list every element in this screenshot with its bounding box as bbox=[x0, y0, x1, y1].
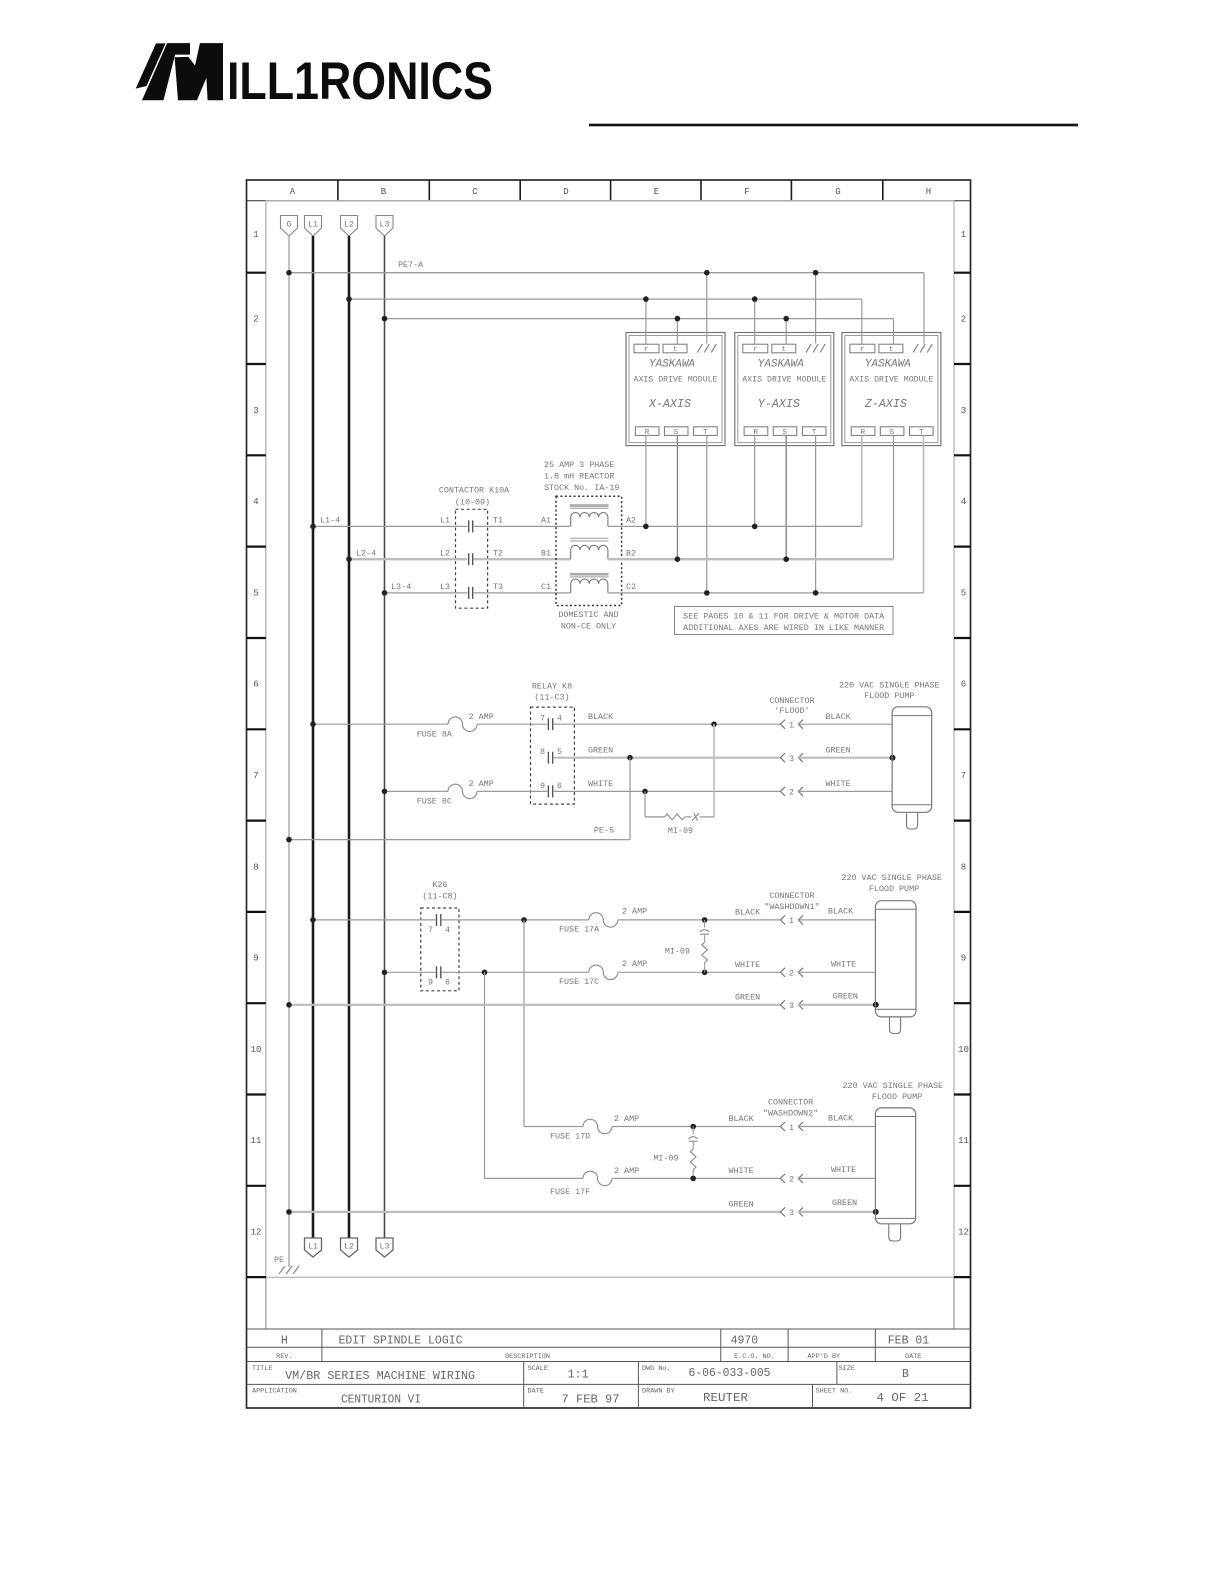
wire X-axis t drop bbox=[676, 319, 678, 345]
svg-text:10: 10 bbox=[251, 1045, 262, 1055]
svg-text:FUSE 8A: FUSE 8A bbox=[417, 730, 453, 740]
svg-text:BLACK: BLACK bbox=[826, 712, 852, 722]
wire X-axis gnd drop bbox=[706, 273, 708, 344]
ground PE slashes bbox=[279, 1266, 299, 1274]
svg-text:(11-C8): (11-C8) bbox=[422, 892, 457, 902]
svg-text:L1: L1 bbox=[308, 220, 318, 230]
node gnd2 bbox=[813, 270, 819, 276]
pin S Y-axis bbox=[773, 427, 797, 436]
connector flood pin2 bbox=[780, 787, 803, 796]
svg-text:r: r bbox=[860, 346, 865, 354]
wire fuse17D to connector bbox=[612, 1126, 780, 1128]
pin R Y-axis bbox=[744, 427, 768, 436]
svg-text:(11-C3): (11-C3) bbox=[534, 693, 569, 703]
svg-text:1: 1 bbox=[253, 230, 258, 240]
wire wd1 black row left bbox=[313, 919, 436, 921]
svg-text:5: 5 bbox=[961, 588, 966, 598]
svg-text:AXIS DRIVE MODULE: AXIS DRIVE MODULE bbox=[742, 375, 826, 384]
wire G vertical bbox=[288, 236, 290, 1267]
svg-text:RELAY K8: RELAY K8 bbox=[532, 682, 572, 692]
svg-text:"WASHDOWN1": "WASHDOWN1" bbox=[764, 902, 819, 912]
terminal L2 (bottom) bbox=[341, 1238, 358, 1257]
svg-text:2 AMP: 2 AMP bbox=[469, 779, 494, 789]
svg-text:L1-4: L1-4 bbox=[320, 516, 340, 526]
wire Z-axis R to A2 bbox=[861, 435, 863, 526]
title block application row bbox=[252, 1388, 929, 1407]
svg-text:Y-AXIS: Y-AXIS bbox=[758, 398, 800, 411]
svg-text:BLACK: BLACK bbox=[588, 712, 614, 722]
svg-text:2 AMP: 2 AMP bbox=[614, 1166, 639, 1176]
svg-text:GREEN: GREEN bbox=[826, 746, 851, 756]
wire wd2 pin2 to pump bbox=[798, 1177, 875, 1179]
wire fuse8A to contact bbox=[477, 723, 547, 725]
logo M left leg and top-left block bbox=[142, 43, 190, 100]
pin t Z-axis bbox=[879, 344, 903, 353]
wire pin2 to pump bbox=[798, 790, 892, 792]
top rule line bbox=[589, 124, 1078, 127]
fuse F17C bbox=[589, 965, 618, 980]
svg-text:10: 10 bbox=[958, 1045, 969, 1055]
svg-text:T2: T2 bbox=[493, 548, 503, 558]
contact K10A pole1 bbox=[469, 520, 473, 532]
svg-text:WHITE: WHITE bbox=[826, 779, 851, 789]
fuse F17A bbox=[589, 913, 618, 928]
connector flood pin3 bbox=[780, 753, 803, 762]
svg-text:220 VAC SINGLE PHASE: 220 VAC SINGLE PHASE bbox=[841, 873, 942, 883]
fuse F8C bbox=[448, 784, 477, 799]
svg-text:2: 2 bbox=[253, 315, 258, 325]
svg-text:SCALE: SCALE bbox=[528, 1365, 548, 1373]
terminal L3 (top) bbox=[376, 216, 393, 237]
svg-text:7 FEB 97: 7 FEB 97 bbox=[562, 1393, 620, 1406]
svg-text:F: F bbox=[744, 187, 749, 197]
svg-text:4: 4 bbox=[557, 714, 562, 724]
fuse F17D bbox=[583, 1119, 612, 1134]
title block rev row bbox=[281, 1335, 929, 1348]
svg-text:2: 2 bbox=[789, 788, 794, 798]
svg-text:1:1: 1:1 bbox=[568, 1369, 589, 1382]
ground slashes Z-axis bbox=[913, 344, 932, 353]
svg-text:C1: C1 bbox=[541, 582, 551, 592]
svg-text:NON-CE ONLY: NON-CE ONLY bbox=[561, 622, 616, 632]
fuse F8A bbox=[448, 717, 477, 732]
node green at pump bbox=[890, 755, 896, 761]
svg-text:B: B bbox=[381, 187, 387, 197]
node wd1-L1 bbox=[310, 917, 316, 923]
node wd2 white drop bbox=[482, 970, 488, 976]
svg-text:G: G bbox=[286, 220, 291, 230]
wire L1 vertical bbox=[312, 236, 315, 1238]
svg-text:1: 1 bbox=[789, 1123, 794, 1133]
pin r Y-axis bbox=[743, 344, 768, 353]
svg-text:D: D bbox=[563, 187, 568, 197]
svg-text:WHITE: WHITE bbox=[729, 1166, 754, 1176]
varistor MI-09 wd1 bbox=[704, 920, 706, 928]
pin r X-axis bbox=[634, 344, 659, 353]
wire wd1 pin2 to pump bbox=[798, 971, 875, 973]
frame right band line bbox=[953, 201, 955, 1329]
contact K8 7-4 bbox=[548, 718, 552, 730]
svg-text:B2: B2 bbox=[626, 548, 636, 558]
svg-text:PE-5: PE-5 bbox=[594, 826, 614, 836]
pin R X-axis bbox=[635, 427, 659, 436]
svg-text:L3: L3 bbox=[379, 220, 389, 230]
svg-text:FEB 01: FEB 01 bbox=[888, 1335, 930, 1348]
pin t X-axis bbox=[663, 344, 687, 353]
svg-text:FUSE 17D: FUSE 17D bbox=[550, 1132, 590, 1142]
svg-text:11: 11 bbox=[251, 1136, 262, 1146]
svg-text:BLACK: BLACK bbox=[735, 908, 761, 918]
motor flood pump body bbox=[892, 707, 932, 813]
svg-text:'FLOOD': 'FLOOD' bbox=[774, 706, 809, 716]
svg-text:BLACK: BLACK bbox=[828, 1114, 854, 1124]
contact K8 9-6 bbox=[548, 785, 552, 797]
wire wd2 white row bbox=[485, 1177, 584, 1179]
svg-text:L1: L1 bbox=[440, 516, 450, 526]
wire wd1 pin1 to pump bbox=[798, 919, 875, 921]
svg-text:r: r bbox=[644, 346, 649, 354]
node t2 bbox=[783, 316, 789, 322]
contact K10A pole3 bbox=[469, 587, 473, 599]
wire B2 row bbox=[608, 558, 894, 560]
node MI09 white tap bbox=[642, 789, 648, 795]
frame row ticks left bbox=[247, 273, 266, 1277]
svg-text:4: 4 bbox=[445, 925, 450, 935]
connector wd1 pin3 bbox=[780, 1000, 803, 1009]
svg-text:G: G bbox=[835, 187, 840, 197]
svg-text:t: t bbox=[782, 346, 787, 354]
svg-text:AXIS DRIVE MODULE: AXIS DRIVE MODULE bbox=[849, 375, 933, 384]
wire Z-axis gnd drop bbox=[923, 273, 925, 344]
inner drawing frame bbox=[266, 201, 954, 1278]
svg-text:L2: L2 bbox=[344, 220, 354, 230]
title block lines bbox=[247, 1329, 971, 1408]
svg-text:3: 3 bbox=[253, 406, 258, 416]
svg-text:REV.: REV. bbox=[276, 1353, 292, 1361]
svg-text:MI-09: MI-09 bbox=[653, 1154, 678, 1164]
svg-text:C2: C2 bbox=[626, 582, 636, 592]
terminal L3 (bottom) bbox=[376, 1238, 393, 1257]
connector wd2 pin3 bbox=[780, 1207, 803, 1216]
svg-text:4970: 4970 bbox=[731, 1335, 759, 1348]
svg-text:B1: B1 bbox=[541, 548, 551, 558]
wire fuse17C to connector bbox=[618, 971, 781, 973]
logo M right leg and top block bbox=[195, 43, 223, 100]
frame row numbers right bbox=[958, 230, 969, 1238]
node fuse8C-L3 bbox=[382, 789, 388, 795]
terminal L1 (bottom) bbox=[305, 1238, 322, 1257]
wire X-axis S to B2 bbox=[676, 435, 678, 559]
svg-text:9: 9 bbox=[428, 977, 433, 987]
wire K26-4 to fuse17A bbox=[442, 919, 589, 921]
svg-text:DESCRIPTION: DESCRIPTION bbox=[505, 1353, 550, 1361]
svg-text:FLOOD PUMP: FLOOD PUMP bbox=[872, 1092, 922, 1102]
svg-text:6: 6 bbox=[557, 781, 562, 791]
svg-text:DOMESTIC AND: DOMESTIC AND bbox=[558, 610, 618, 620]
svg-text:7: 7 bbox=[961, 771, 966, 781]
svg-text:L3: L3 bbox=[440, 582, 450, 592]
node L2-4 bbox=[346, 556, 352, 562]
svg-text:1: 1 bbox=[789, 721, 794, 731]
node L2 feed bbox=[346, 296, 352, 302]
svg-text:9: 9 bbox=[961, 954, 966, 964]
node MI09wd1 top bbox=[702, 917, 708, 923]
wire fuse17F to connector bbox=[612, 1177, 780, 1179]
svg-text:VM/BR SERIES MACHINE WIRING: VM/BR SERIES MACHINE WIRING bbox=[285, 1370, 475, 1383]
node wd1-L3 bbox=[382, 970, 388, 976]
svg-text:GREEN: GREEN bbox=[588, 746, 613, 756]
relay K8 dashed box bbox=[531, 707, 575, 804]
svg-text:DWG No.: DWG No. bbox=[642, 1365, 671, 1373]
svg-text:L2-4: L2-4 bbox=[356, 548, 376, 558]
frame row ticks right bbox=[954, 273, 971, 1277]
wire fuse8C row left bbox=[385, 790, 449, 792]
contact K10A pole2 bbox=[469, 553, 473, 565]
connector flood pin1 bbox=[780, 720, 803, 729]
node MI09wd2 top bbox=[690, 1124, 696, 1130]
note box see pages bbox=[675, 607, 894, 635]
varistor MI-09 wd2 bbox=[692, 1127, 694, 1135]
inductor phase A core bbox=[570, 504, 609, 507]
svg-text:3: 3 bbox=[961, 406, 966, 416]
svg-text:L3-4: L3-4 bbox=[391, 582, 411, 592]
svg-text:BLACK: BLACK bbox=[729, 1114, 755, 1124]
svg-text:WHITE: WHITE bbox=[588, 779, 613, 789]
svg-text:11: 11 bbox=[958, 1136, 969, 1146]
svg-text:DRAWN BY: DRAWN BY bbox=[642, 1388, 675, 1396]
node L1-4 bbox=[310, 524, 316, 530]
svg-text:T1: T1 bbox=[493, 516, 503, 526]
svg-text:WHITE: WHITE bbox=[831, 960, 856, 970]
svg-text:2: 2 bbox=[961, 315, 966, 325]
svg-text:2: 2 bbox=[789, 1175, 794, 1185]
node wd1 green at G bbox=[286, 1002, 292, 1008]
svg-text:MI-09: MI-09 bbox=[668, 826, 693, 836]
svg-text:CONTACTOR K10A: CONTACTOR K10A bbox=[439, 486, 510, 496]
contact K26 7-4 bbox=[437, 914, 441, 926]
wire Y-axis S to B2 bbox=[785, 435, 787, 559]
svg-text:GREEN: GREEN bbox=[735, 993, 760, 1003]
svg-text:1.8 mH REACTOR: 1.8 mH REACTOR bbox=[544, 472, 614, 482]
svg-text:FUSE 17C: FUSE 17C bbox=[559, 977, 599, 987]
svg-text:GREEN: GREEN bbox=[833, 992, 858, 1002]
pin S Z-axis bbox=[880, 427, 904, 436]
wire Y-axis t drop bbox=[785, 319, 787, 345]
node L3-4 bbox=[382, 590, 388, 596]
svg-text:A2: A2 bbox=[626, 516, 636, 526]
motor wd2 pump shaft bbox=[889, 1224, 901, 1241]
svg-text:FLOOD PUMP: FLOOD PUMP bbox=[869, 884, 919, 894]
node wd2 green at pump bbox=[873, 1209, 879, 1215]
svg-text:PE: PE bbox=[274, 1255, 284, 1265]
wire Z-axis t drop bbox=[893, 319, 895, 345]
inductor phase C core bbox=[570, 573, 609, 576]
terminal L1 (top) bbox=[305, 216, 322, 237]
wire L2 to drive r terminals bbox=[349, 298, 862, 300]
svg-text:SEE PAGES 10 & 11 FOR DRIVE &: SEE PAGES 10 & 11 FOR DRIVE & MOTOR DATA bbox=[683, 612, 885, 622]
contact K26 9-6 bbox=[437, 966, 441, 978]
svg-text:REUTER: REUTER bbox=[703, 1392, 748, 1405]
svg-text:220 VAC SINGLE PHASE: 220 VAC SINGLE PHASE bbox=[839, 681, 940, 691]
svg-text:X-AXIS: X-AXIS bbox=[648, 398, 691, 411]
title block title row bbox=[252, 1365, 909, 1383]
svg-text:1: 1 bbox=[961, 230, 966, 240]
svg-text:WHITE: WHITE bbox=[735, 960, 760, 970]
svg-text:2: 2 bbox=[789, 969, 794, 979]
title block header labels bbox=[276, 1353, 921, 1361]
node PE7-A at G bbox=[286, 270, 292, 276]
svg-text:5: 5 bbox=[253, 588, 258, 598]
node B2-S1 bbox=[675, 556, 681, 562]
wire wd2 pin3 to pump bbox=[798, 1211, 875, 1213]
ground slashes X-axis bbox=[697, 344, 716, 353]
svg-text:GREEN: GREEN bbox=[729, 1200, 754, 1210]
op-amp U1 Yaskawa X-axis drive module bbox=[626, 333, 725, 446]
svg-text:L1: L1 bbox=[308, 1242, 318, 1252]
wire drop to wd2 black bbox=[523, 920, 525, 1127]
svg-text:FUSE 17F: FUSE 17F bbox=[550, 1187, 590, 1197]
motor flood pump shaft bbox=[907, 813, 918, 829]
wire wd1 green row bbox=[289, 1004, 780, 1006]
node r2 bbox=[752, 296, 758, 302]
pin T Z-axis bbox=[910, 427, 934, 436]
svg-text:YASKAWA: YASKAWA bbox=[649, 359, 695, 371]
svg-text:BLACK: BLACK bbox=[828, 907, 854, 917]
svg-text:2 AMP: 2 AMP bbox=[622, 959, 647, 969]
wire wd1 pin3 to pump bbox=[798, 1004, 875, 1006]
svg-text:6: 6 bbox=[253, 680, 258, 690]
node MI09wd2 bottom bbox=[690, 1176, 696, 1182]
node A2-R1 bbox=[643, 524, 649, 530]
reactor dotted box bbox=[556, 496, 622, 605]
svg-text:H: H bbox=[281, 1335, 288, 1348]
wire Y-axis gnd drop bbox=[815, 273, 817, 344]
wire Z-axis T to C2 bbox=[923, 435, 925, 593]
logo MILLTRONICS bbox=[136, 43, 223, 100]
contact K8 8-5 bbox=[548, 752, 552, 764]
svg-text:CONNECTOR: CONNECTOR bbox=[769, 696, 814, 706]
svg-text:STOCK No. IA-19: STOCK No. IA-19 bbox=[544, 483, 619, 493]
wire pin3 to pump bbox=[798, 757, 892, 759]
svg-text:t: t bbox=[889, 346, 894, 354]
svg-text:H: H bbox=[926, 187, 931, 197]
svg-text:CONNECTOR: CONNECTOR bbox=[769, 891, 814, 901]
svg-text:"WASHDOWN2": "WASHDOWN2" bbox=[763, 1108, 818, 1118]
wire C2 row bbox=[608, 592, 924, 594]
wire Y-axis r drop bbox=[754, 299, 756, 344]
svg-text:CENTURION VI: CENTURION VI bbox=[341, 1393, 421, 1406]
wire fuse8A row left bbox=[313, 723, 448, 725]
connector wd2 pin1 bbox=[780, 1122, 803, 1131]
wire K8-5 green to connector 3 bbox=[554, 757, 781, 759]
node wd2 black drop bbox=[521, 917, 527, 923]
inductor phase B core bbox=[570, 537, 609, 539]
svg-text:r: r bbox=[753, 346, 758, 354]
wire drop to wd2 white bbox=[484, 972, 486, 1178]
fuse F17F bbox=[583, 1171, 612, 1186]
svg-text:4: 4 bbox=[961, 497, 966, 507]
svg-text:K26: K26 bbox=[432, 880, 447, 890]
wire K8-4 to connector 1 bbox=[554, 723, 781, 725]
svg-text:2 AMP: 2 AMP bbox=[622, 907, 647, 917]
op-amp U2 Yaskawa Y-axis drive module bbox=[735, 333, 834, 446]
svg-text:2 AMP: 2 AMP bbox=[469, 712, 494, 722]
inductor phase B coil bbox=[571, 545, 608, 559]
svg-text:SHEET NO.: SHEET NO. bbox=[816, 1388, 853, 1396]
connector wd2 pin2 bbox=[780, 1174, 803, 1183]
node gnd1 bbox=[704, 270, 710, 276]
svg-text:MI-09: MI-09 bbox=[665, 947, 690, 957]
svg-text:E: E bbox=[654, 187, 659, 197]
svg-text:ADDITIONAL AXES ARE WIRED IN L: ADDITIONAL AXES ARE WIRED IN LIKE MANNER bbox=[683, 623, 884, 633]
node C2-T2 bbox=[813, 590, 819, 596]
wire Y-axis T to C2 bbox=[815, 435, 817, 593]
ground slashes Y-axis bbox=[806, 344, 825, 353]
connector wd1 pin2 bbox=[780, 968, 803, 977]
svg-text:L2: L2 bbox=[440, 548, 450, 558]
motor wd1 pump body bbox=[875, 901, 916, 1017]
node PE-5 at G bbox=[286, 837, 292, 843]
node wd2 green at G bbox=[286, 1209, 292, 1215]
svg-text:8: 8 bbox=[540, 747, 545, 757]
svg-text:9: 9 bbox=[253, 954, 258, 964]
wire L2 vertical bbox=[348, 236, 351, 1238]
svg-text:4: 4 bbox=[253, 497, 258, 507]
svg-text:B: B bbox=[902, 1368, 909, 1381]
wire K26-6 to fuse17C bbox=[442, 971, 589, 973]
wire L2-4 row bbox=[349, 558, 468, 560]
wire L1-4 row bbox=[313, 525, 468, 527]
wire L3 to drive t terminals bbox=[385, 318, 894, 320]
node L3 feed bbox=[382, 316, 388, 322]
svg-text:9: 9 bbox=[540, 781, 545, 791]
frame row numbers left bbox=[251, 230, 262, 1238]
node B2-S2 bbox=[783, 556, 789, 562]
contactor K26 dashed box bbox=[421, 908, 459, 991]
svg-text:DATE: DATE bbox=[905, 1353, 921, 1361]
logo M thin slash bbox=[136, 43, 166, 88]
svg-text:7: 7 bbox=[253, 771, 258, 781]
svg-text:AXIS DRIVE MODULE: AXIS DRIVE MODULE bbox=[634, 375, 718, 384]
svg-text:PE7-A: PE7-A bbox=[398, 260, 424, 270]
logo M middle stroke bbox=[175, 57, 207, 100]
pin R Z-axis bbox=[851, 427, 875, 436]
svg-text:(10-09): (10-09) bbox=[455, 498, 490, 508]
svg-text:L3: L3 bbox=[379, 1242, 389, 1252]
connector wd1 pin1 bbox=[780, 915, 803, 924]
svg-text:EDIT SPINDLE LOGIC: EDIT SPINDLE LOGIC bbox=[339, 1335, 463, 1348]
svg-text:ILL1RONICS: ILL1RONICS bbox=[227, 52, 493, 111]
svg-text:CONNECTOR: CONNECTOR bbox=[768, 1098, 813, 1108]
frame column letters bbox=[290, 187, 931, 197]
pin T Y-axis bbox=[802, 427, 826, 436]
svg-text:DATE: DATE bbox=[528, 1388, 544, 1396]
svg-text:FUSE 8C: FUSE 8C bbox=[417, 797, 452, 807]
node wd1 green at pump bbox=[873, 1002, 879, 1008]
wire wd2 green row bbox=[289, 1211, 780, 1213]
wire pin1 to pump bbox=[798, 723, 892, 725]
svg-text:SIZE: SIZE bbox=[839, 1365, 855, 1373]
svg-text:1: 1 bbox=[789, 916, 794, 926]
node t1 bbox=[675, 316, 681, 322]
op-amp U3 Yaskawa Z-axis drive module bbox=[842, 333, 941, 446]
svg-text:6: 6 bbox=[961, 680, 966, 690]
svg-text:6-06-033-005: 6-06-033-005 bbox=[689, 1367, 771, 1380]
pin r Z-axis bbox=[850, 344, 875, 353]
wire fuse8C to contact bbox=[477, 790, 547, 792]
svg-text:12: 12 bbox=[251, 1228, 262, 1238]
svg-text:3: 3 bbox=[789, 1208, 794, 1218]
